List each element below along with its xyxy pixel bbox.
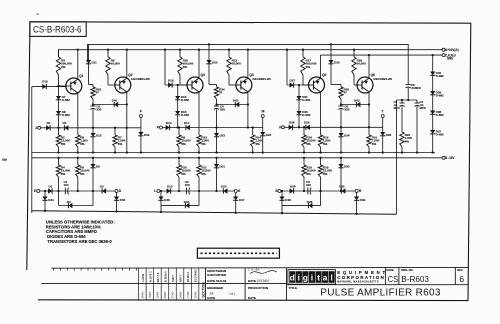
diode D6	[64, 125, 68, 130]
diode D30	[298, 99, 300, 111]
svg-text:D15: D15	[184, 200, 190, 204]
diode D42	[140, 128, 142, 132]
svg-text:9/7/65: 9/7/65	[172, 291, 175, 299]
diode D26	[289, 125, 293, 130]
title block vertical borders	[205, 268, 207, 300]
transistor Q6	[357, 77, 373, 93]
diode D34	[338, 133, 343, 137]
diode D13	[167, 188, 171, 193]
svg-text:B 1815-0: B 1815-0	[163, 271, 167, 282]
capacitor C5	[307, 188, 309, 195]
diode D2	[46, 125, 50, 130]
diode D27	[286, 50, 288, 85]
wire Q1 collector	[77, 50, 79, 79]
resistor R6	[107, 50, 109, 57]
title block top line with ticks	[52, 266, 469, 269]
svg-text:D17: D17	[184, 121, 190, 125]
diode D35	[330, 44, 332, 60]
bottom row wire	[40, 190, 115, 192]
wire	[216, 109, 218, 133]
svg-text:ENGINEER: ENGINEER	[207, 286, 224, 290]
svg-text:a: a	[323, 273, 328, 283]
resistor R15	[303, 158, 305, 165]
svg-text:5%: 5%	[372, 142, 377, 146]
svg-text:D-662: D-662	[436, 133, 444, 137]
input row wire	[41, 127, 141, 129]
svg-text:B 2073-1: B 2073-1	[148, 271, 152, 282]
capacitor C4	[214, 105, 219, 107]
wire jog	[89, 84, 94, 86]
diode D4	[58, 191, 60, 206]
svg-text:3/4/65: 3/4/65	[164, 291, 167, 299]
wire R13 to Q4 base	[228, 75, 230, 85]
resistor R7	[114, 127, 116, 129]
wire R20 to Q3 base	[179, 75, 181, 85]
resistor R25	[340, 85, 342, 88]
svg-text:DATE: DATE	[207, 296, 215, 300]
svg-text:N.W.PORTER: N.W.PORTER	[207, 273, 227, 277]
svg-text:GND: GND	[447, 56, 454, 60]
svg-text:330: 330	[220, 108, 225, 112]
diode D36	[382, 127, 384, 132]
diode D32	[341, 188, 345, 193]
svg-text:l: l	[330, 273, 332, 283]
svg-text:5%: 5%	[201, 172, 206, 176]
wire Q4 collector	[247, 50, 249, 78]
svg-text:D-662: D-662	[62, 113, 71, 117]
digital logo	[288, 270, 336, 285]
diode D14	[166, 125, 170, 130]
wire R26 to Q6 base	[353, 75, 355, 85]
svg-text:5%: 5%	[181, 172, 186, 176]
svg-text:D28: D28	[307, 200, 313, 204]
svg-text:MFD: MFD	[420, 106, 426, 110]
svg-text:10,000: 10,000	[232, 62, 242, 66]
svg-text:D23: D23	[212, 61, 218, 65]
resistor R14	[252, 126, 254, 128]
svg-text:D-662: D-662	[436, 113, 444, 117]
terminal S	[278, 190, 281, 193]
svg-text:5%: 5%	[80, 142, 85, 146]
svg-text:7/7/66: 7/7/66	[187, 291, 190, 299]
transistor Q5	[309, 77, 325, 93]
svg-text:A+10V(A): A+10V(A)	[445, 48, 459, 52]
capacitor C9	[401, 100, 403, 103]
wire jog	[331, 84, 341, 86]
svg-text:6: 6	[459, 274, 464, 284]
svg-text:DEC2894-2B: DEC2894-2B	[374, 77, 393, 81]
terminal F	[139, 115, 142, 118]
svg-text:100: 100	[185, 183, 190, 187]
svg-text:CORPORATION: CORPORATION	[337, 275, 385, 280]
svg-text:D-662: D-662	[181, 113, 190, 117]
svg-text:D27: D27	[290, 79, 296, 83]
svg-text:D-662: D-662	[62, 98, 71, 102]
terminal E	[37, 190, 40, 193]
wire R3 to Q1 base	[58, 75, 60, 86]
resistor R18	[320, 158, 322, 165]
svg-text:D-662: D-662	[436, 74, 444, 78]
svg-text:10/6/4: 10/6/4	[142, 291, 145, 299]
diode D1	[48, 188, 52, 193]
diode D15	[161, 205, 199, 207]
bottom row wire	[160, 190, 234, 192]
svg-text:D20: D20	[221, 184, 227, 188]
diode D22	[214, 133, 219, 137]
svg-text:D41: D41	[112, 99, 118, 103]
diode D45	[116, 193, 118, 197]
terminal A +10V	[442, 48, 445, 51]
svg-text:D46: D46	[164, 198, 170, 202]
resistor R10	[178, 158, 180, 165]
wire Q5 emitter	[320, 92, 322, 127]
diode D49	[356, 193, 358, 197]
diode D9	[92, 158, 94, 164]
wire Q2 collector	[126, 50, 128, 78]
diode D42	[217, 104, 248, 106]
svg-text:CODE: CODE	[386, 268, 394, 272]
input row wire	[163, 127, 263, 129]
svg-text:.01MFD: .01MFD	[411, 86, 421, 90]
wire Q6 emitter	[368, 92, 370, 127]
left vertical wire	[31, 87, 33, 213]
diode D43	[341, 104, 369, 106]
wire R6 to Q2 base	[107, 75, 109, 85]
svg-text:47: 47	[344, 91, 348, 95]
capacitor C8	[406, 84, 411, 86]
wire jog	[209, 84, 217, 86]
svg-text:DATE 10-5-64: DATE 10-5-64	[207, 279, 226, 283]
svg-text:i: i	[298, 273, 300, 283]
svg-text:D47: D47	[239, 198, 245, 202]
svg-text:100: 100	[64, 183, 69, 187]
diode D38	[430, 111, 435, 115]
svg-text:D13: D13	[167, 184, 173, 188]
svg-text:D11: D11	[92, 61, 98, 65]
svg-text:10/4/6: 10/4/6	[194, 291, 197, 299]
rail mid bias	[32, 152, 435, 154]
diode D33	[340, 158, 342, 164]
wire	[340, 99, 342, 106]
wire top horizontal	[396, 99, 417, 101]
svg-text:100: 100	[306, 183, 311, 187]
right return wire	[395, 100, 397, 214]
svg-text:D44: D44	[48, 198, 54, 202]
svg-text:M: M	[262, 110, 265, 114]
drawing number box CS-B-R603-6	[30, 22, 86, 37]
svg-text:D34: D34	[344, 134, 350, 138]
svg-text:4-2039: 4-2039	[141, 273, 145, 282]
diode D28	[282, 205, 321, 207]
resistor R22	[400, 132, 404, 147]
svg-text:5%: 5%	[405, 139, 410, 143]
svg-text:330: 330	[344, 108, 349, 112]
svg-text:PRODUCTION: PRODUCTION	[248, 286, 268, 290]
resistor R11	[198, 158, 200, 165]
terminal M	[261, 115, 264, 118]
svg-text:B4163-4: B4163-4	[186, 271, 190, 282]
connector strip	[197, 248, 279, 258]
svg-text:D26: D26	[289, 121, 295, 125]
wire	[340, 109, 342, 133]
diode D39	[430, 91, 435, 95]
diode D37	[430, 130, 435, 134]
resistor R4	[58, 158, 60, 165]
svg-text:D29: D29	[304, 121, 310, 125]
wire	[216, 99, 218, 106]
terminal B -15V	[442, 156, 445, 159]
svg-text:D-662: D-662	[181, 98, 190, 102]
svg-text:5%: 5%	[306, 172, 311, 176]
svg-text:D2: D2	[47, 121, 51, 125]
svg-text:ECO R603: ECO R603	[194, 269, 198, 282]
svg-text:5%: 5%	[80, 172, 85, 176]
transistor Q3	[187, 77, 203, 93]
svg-text:CS: CS	[388, 275, 399, 284]
resistor R20	[179, 50, 181, 57]
resistor R2	[58, 128, 60, 135]
terminal P	[160, 126, 163, 129]
svg-text:DATE: DATE	[248, 279, 256, 283]
svg-text:47: 47	[219, 91, 223, 95]
svg-text:5%: 5%	[323, 172, 328, 176]
diode D24	[262, 128, 264, 133]
svg-text:5%: 5%	[306, 142, 311, 146]
svg-text:D12: D12	[96, 134, 102, 138]
svg-text:Q1: Q1	[79, 74, 83, 78]
terminal T	[381, 115, 384, 118]
diode D8	[58, 99, 60, 111]
svg-text:10,000: 10,000	[357, 62, 367, 66]
diode D40	[430, 72, 435, 76]
capacitor C1	[64, 188, 66, 195]
diode D20	[223, 188, 227, 193]
diode D29	[306, 125, 310, 130]
bus 3 GND bus	[321, 54, 443, 56]
speck artifact	[37, 14, 39, 15]
terminal J	[38, 126, 41, 129]
svg-text:D25: D25	[290, 184, 296, 188]
svg-text:C. E. LEA: C. E. LEA	[248, 268, 260, 272]
diode D3	[102, 188, 106, 193]
svg-text:d: d	[290, 273, 295, 283]
diode D17	[186, 125, 190, 130]
svg-text:5%: 5%	[306, 65, 311, 69]
resistor R16	[303, 127, 305, 135]
bus 2 +10V bus	[59, 50, 443, 57]
drawing frame border	[30, 22, 471, 301]
bus 1 top clamp bus	[88, 44, 409, 84]
clamp diode chain	[432, 55, 434, 152]
diode D31	[298, 84, 300, 86]
transistor Q4	[236, 77, 252, 93]
svg-text:REV.: REV.	[457, 268, 463, 272]
svg-text:47: 47	[96, 91, 100, 95]
wire Q5 collector	[320, 55, 322, 78]
title block middle line	[41, 282, 286, 284]
svg-text:D21: D21	[220, 165, 226, 169]
svg-text:MAYNARD, MASSACHUSETTS: MAYNARD, MASSACHUSETTS	[337, 280, 379, 283]
capacitor C7	[416, 100, 418, 103]
terminal D	[115, 190, 118, 193]
svg-text:i: i	[311, 273, 313, 283]
svg-text:Jul: Jul	[209, 292, 214, 296]
diode D41	[93, 104, 127, 106]
svg-text:D24: D24	[266, 133, 272, 137]
capacitor C2	[90, 105, 95, 107]
svg-text:5%: 5%	[61, 172, 66, 176]
wire Q3 emitter	[198, 92, 200, 128]
svg-text:D-662: D-662	[436, 94, 444, 98]
svg-text:D42: D42	[233, 99, 239, 103]
terminal K	[234, 190, 237, 193]
svg-text:J: J	[35, 126, 37, 130]
smudge artifact left edge	[2, 159, 7, 161]
svg-text:D45: D45	[120, 198, 126, 202]
svg-text:g: g	[303, 273, 308, 283]
resistor R19	[320, 127, 322, 135]
diode D46	[160, 191, 162, 197]
svg-text:D32: D32	[339, 184, 345, 188]
wire Q1 emitter	[77, 93, 79, 128]
svg-text:330: 330	[96, 108, 101, 112]
wire	[92, 99, 94, 106]
svg-text:D48: D48	[285, 198, 291, 202]
resistor R26	[353, 50, 355, 57]
bottom ground bus	[32, 211, 397, 215]
bottom row wire	[281, 190, 355, 192]
svg-text:D42: D42	[144, 133, 150, 137]
diode D18	[164, 50, 166, 85]
resistor R8	[77, 128, 79, 135]
svg-text:D9: D9	[96, 165, 100, 169]
capacitor C3	[186, 188, 188, 195]
resistor R17	[302, 50, 304, 57]
diode D7	[57, 85, 59, 87]
svg-text:D6: D6	[63, 121, 67, 125]
svg-text:5%: 5%	[61, 142, 66, 146]
svg-text:B -15V: B -15V	[445, 156, 455, 160]
svg-text:~/4 /: ~/4 /	[228, 292, 235, 296]
svg-text:10/15/64: 10/15/64	[257, 279, 270, 283]
wire R17 to Q5 base	[302, 75, 304, 85]
svg-text:10,000: 10,000	[111, 62, 121, 66]
resistor R9	[178, 128, 180, 136]
svg-text:5%: 5%	[183, 65, 188, 69]
svg-text:D35: D35	[334, 61, 340, 65]
svg-text:D4: D4	[67, 200, 71, 204]
svg-text:D49: D49	[360, 198, 366, 202]
resistor R5	[77, 158, 79, 165]
diode D19	[177, 84, 179, 86]
svg-text:Q5: Q5	[322, 73, 326, 77]
svg-text:D43: D43	[354, 99, 360, 103]
svg-text:D14: D14	[166, 121, 172, 125]
diode D23	[208, 44, 210, 60]
svg-text:D-662: D-662	[302, 98, 311, 102]
svg-text:5%: 5%	[256, 142, 261, 146]
wire Q2 emitter	[126, 92, 128, 128]
transistor Q2	[115, 77, 131, 93]
resistor R12	[198, 128, 200, 136]
svg-text:DWG. NO.: DWG. NO.	[401, 268, 414, 272]
diode D48	[281, 191, 283, 197]
svg-text:MFD: MFD	[394, 106, 400, 110]
resistor R23	[92, 85, 94, 88]
capacitor C6	[338, 105, 343, 107]
svg-text:5%: 5%	[61, 65, 66, 69]
svg-text:5%: 5%	[323, 142, 328, 146]
diode D10	[32, 86, 66, 88]
diode D47	[235, 193, 237, 197]
svg-text:B00 2: B00 2	[179, 275, 183, 282]
diode D21	[216, 158, 218, 164]
resistor R3	[58, 50, 60, 57]
svg-text:D1: D1	[49, 184, 53, 188]
svg-text:SECTION: SECTION	[202, 282, 206, 298]
diode D16	[177, 99, 179, 111]
diode D11	[88, 44, 90, 60]
wire emitter column to rail	[126, 128, 128, 153]
svg-text:D10: D10	[42, 80, 48, 84]
svg-text:PULSE AMPLIFIER R603: PULSE AMPLIFIER R603	[320, 288, 441, 299]
wire Q6 collector	[368, 55, 370, 78]
svg-text:TITLE: TITLE	[289, 286, 297, 290]
svg-text:CS-B-R603-6: CS-B-R603-6	[33, 24, 82, 35]
wire	[92, 109, 94, 133]
diode D44	[44, 191, 46, 197]
terminal C K N U GND	[442, 54, 445, 57]
transistor Q1	[66, 78, 82, 94]
svg-text:Q3: Q3	[201, 73, 205, 77]
diode D12	[90, 133, 95, 137]
svg-text:B-R603: B-R603	[401, 274, 429, 284]
wire Q3 collector	[198, 50, 200, 78]
svg-text:t: t	[317, 273, 320, 283]
resistor R21	[368, 127, 370, 135]
terminal R	[355, 190, 358, 193]
wire Q4 emitter	[247, 92, 249, 128]
svg-text:D33: D33	[344, 165, 350, 169]
svg-text:D-662: D-662	[302, 113, 311, 117]
svg-text:D18: D18	[168, 79, 174, 83]
svg-text:D36: D36	[386, 133, 392, 137]
terminal L	[157, 190, 160, 193]
resistor R24	[216, 85, 218, 88]
svg-text:D3: D3	[100, 184, 104, 188]
svg-text:DEC2894-2B: DEC2894-2B	[131, 77, 150, 81]
svg-text:B17-7-6: B17-7-6	[156, 272, 160, 282]
revision table cells	[138, 268, 140, 300]
svg-text:DEC2894-2B: DEC2894-2B	[252, 77, 271, 81]
svg-text:5%: 5%	[201, 142, 206, 146]
svg-text:D22: D22	[220, 134, 226, 138]
svg-text:5%: 5%	[181, 142, 186, 146]
diode D25	[290, 188, 294, 193]
input row wire	[285, 126, 383, 128]
left frame edge	[27, 22, 30, 270]
rail -15V	[32, 157, 442, 159]
svg-text:DATE: DATE	[248, 296, 256, 300]
svg-text:5%: 5%	[118, 142, 123, 146]
resistor R13	[228, 50, 230, 57]
terminal V	[282, 126, 285, 129]
svg-text:11/9/4: 11/9/4	[157, 291, 160, 298]
svg-text:1967 /: 1967 /	[171, 275, 175, 282]
svg-text:TRANSISTORS ARE DEC 3639-0: TRANSISTORS ARE DEC 3639-0	[47, 239, 112, 244]
svg-text:7/26/5: 7/26/5	[149, 291, 152, 299]
svg-text:2/4/66: 2/4/66	[179, 291, 182, 299]
